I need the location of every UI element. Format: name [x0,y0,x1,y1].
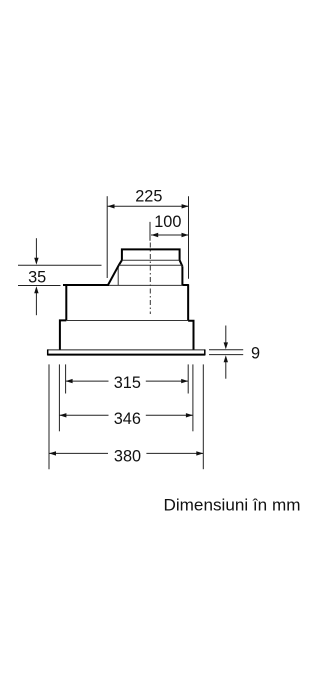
collar band upper thin line [122,259,180,261]
svg-text:100: 100 [154,213,181,231]
body left step and lower edge [60,320,66,349]
svg-text:225: 225 [135,187,162,205]
body top edge middle thin segment [109,284,182,286]
flange left cap [47,349,49,355]
flange top line [48,349,205,351]
body right step and lower edge [188,321,193,350]
body interior step line [66,320,188,322]
svg-text:9: 9 [251,345,260,363]
collar lower box left edge (thin, behind roof) [117,265,119,285]
dimension 35: upper arrow [35,238,37,258]
flange right cap [204,349,206,355]
dimension 346: line with arrows [59,414,108,416]
dimension 9: lower arrow [225,362,227,379]
bottom dims: extension lines 315 [65,364,67,393]
dimension 100: line with arrows [151,234,189,236]
svg-text:Dimensiuni în mm: Dimensiuni în mm [164,496,301,514]
body upper left edge [65,284,67,320]
collar band lower thin line [119,264,183,266]
center line of duct collar (dash-dot axis) [149,222,151,314]
dimension 315: line with arrows [66,380,109,382]
svg-text:380: 380 [114,447,141,465]
collar lower box right edge [181,266,183,285]
collar left flare [119,260,122,265]
dimension 380: line with arrows [49,452,108,454]
body upper right edge [187,284,189,321]
svg-text:35: 35 [28,269,46,287]
roof slope [108,265,119,285]
dimension 225: line with arrows [108,205,189,207]
body top edge right thick segment (step) [182,284,188,286]
svg-text:346: 346 [114,410,141,428]
duct collar top box (thick outline) [122,249,180,260]
bottom dims: extension lines 380 [48,364,50,469]
collar right flare [180,260,183,266]
flange bottom line [48,354,205,356]
dimension 35: extension lines [18,264,102,266]
dimension 35: lower arrow [35,293,37,315]
body top edge left thick segment [63,284,109,286]
bottom dims: extension lines 346 [58,364,60,431]
dimension 225: extension lines [106,196,108,278]
dimension 9: extension lines [209,349,243,351]
svg-text:315: 315 [114,374,141,392]
dimension 9: upper arrow [225,326,227,344]
